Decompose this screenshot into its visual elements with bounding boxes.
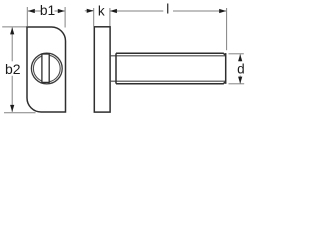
svg-text:d: d [237,61,245,76]
svg-text:k: k [98,3,105,18]
svg-text:b1: b1 [40,3,55,18]
svg-text:l: l [166,2,169,17]
svg-text:b2: b2 [5,61,21,77]
